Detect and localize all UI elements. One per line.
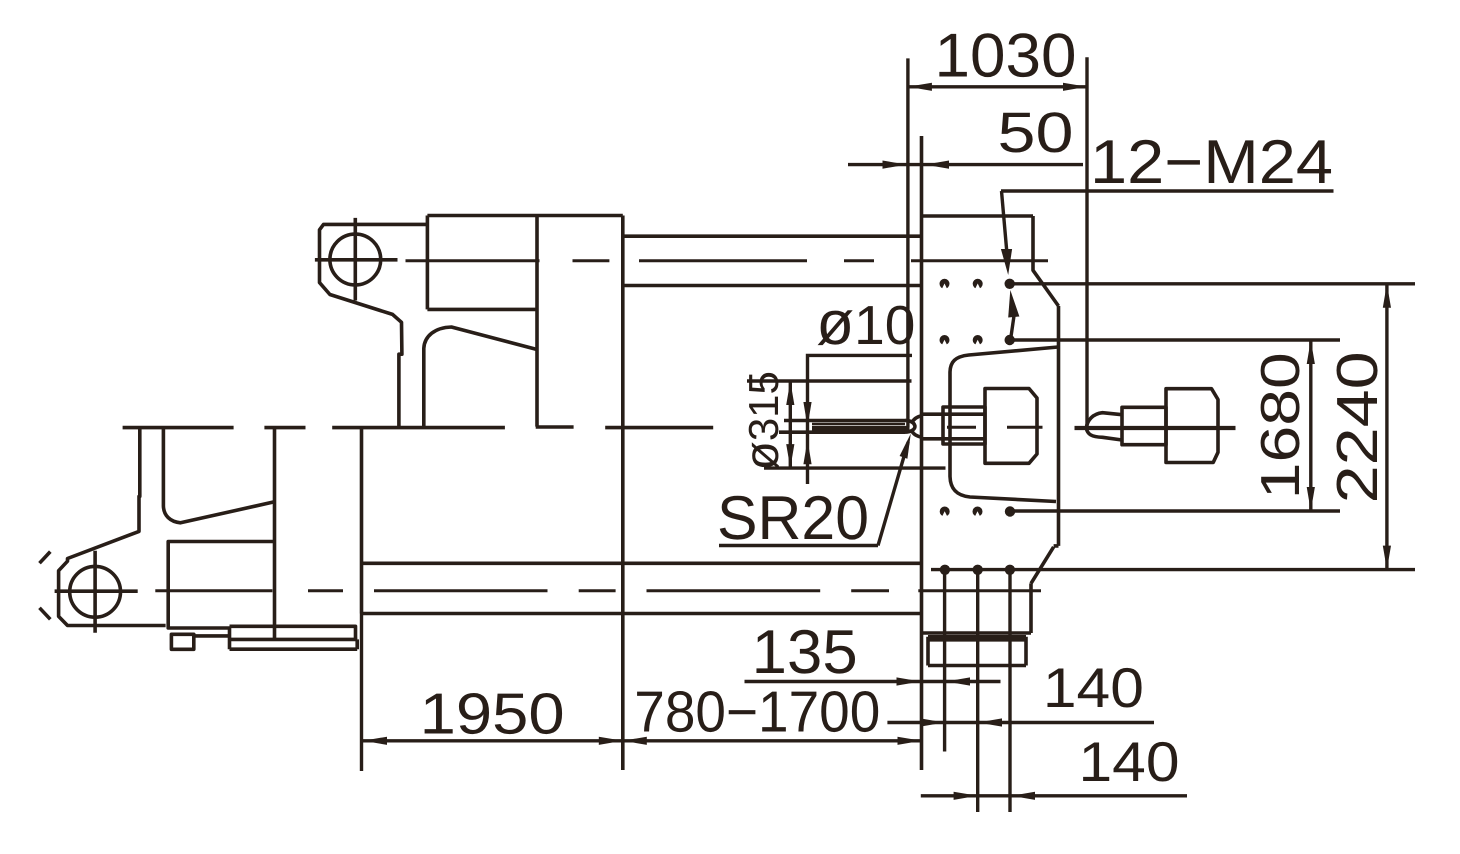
clamp cylinder top edge — [427, 214, 622, 218]
ext line 1030 right — [1085, 57, 1088, 427]
arrow 2240 down — [1383, 546, 1391, 570]
stationary platen top edge — [922, 214, 1034, 218]
center nozzle top line — [784, 419, 905, 423]
bolt dot row4 col1 — [940, 565, 950, 575]
dim line 1030 — [908, 85, 1087, 88]
bolt dot row4 col3 — [1005, 565, 1015, 575]
arrow 12-M24 up — [1008, 290, 1019, 318]
lower tie bar top line — [362, 561, 922, 565]
upper axis centerline dashes — [406, 259, 1049, 262]
ext line 1030 left — [906, 58, 909, 427]
lower cylinder box — [168, 542, 274, 629]
svg-text:140: 140 — [1043, 656, 1144, 719]
upper bracket outline — [320, 224, 428, 427]
lower crosshair horizontal — [55, 589, 138, 593]
stationary platen bottom edge — [922, 631, 1032, 635]
arrow dia10 up — [803, 440, 811, 464]
leader SR20 underline — [719, 544, 878, 547]
dim line dia315 — [789, 381, 792, 468]
svg-text:140: 140 — [1079, 730, 1180, 793]
dim line 1680 — [1309, 340, 1312, 511]
centerlines — [155, 261, 1048, 591]
dim line 50 — [848, 163, 1083, 166]
svg-text:ø10: ø10 — [816, 289, 915, 358]
ext line 2240 bottom — [931, 568, 1415, 571]
bolt dot bottom1 — [1005, 506, 1015, 516]
arrow dia10 down — [803, 402, 811, 427]
ext line 1680 top — [1013, 338, 1340, 341]
lower bracket leg and rib — [163, 428, 274, 523]
upper crosshair vertical — [353, 218, 357, 301]
svg-text:ø315: ø315 — [736, 371, 789, 470]
arrow 135 left — [897, 677, 921, 685]
arrow 50 right — [925, 161, 949, 169]
ext line dia315 bottom — [764, 466, 946, 469]
injection axis thick centerline — [1075, 426, 1236, 430]
lower small foot — [171, 634, 193, 649]
lower big foot plate — [230, 628, 358, 649]
hole r3c2 — [973, 507, 983, 517]
sprue channel dark band — [812, 426, 910, 432]
tapped holes — [940, 279, 983, 517]
ext line bolt col2 — [976, 574, 979, 812]
stationary platen mold face — [920, 136, 924, 770]
arrow 140bottom right — [1011, 792, 1035, 800]
arrow 12-M24 down — [1001, 249, 1012, 275]
nozzle retainer block — [985, 389, 1037, 464]
arrowheads and dots — [363, 83, 1391, 800]
lower tie bar bottom line — [362, 612, 922, 616]
stationary platen right edge — [1031, 306, 1059, 633]
hole r3c1 — [940, 507, 950, 517]
nozzle seat rect — [943, 407, 985, 444]
ext line dia315 top — [747, 379, 912, 382]
arrow 1030 right — [1063, 83, 1087, 91]
svg-text:135: 135 — [752, 618, 858, 687]
bolt dot row4 col2 — [973, 565, 983, 575]
dimension and extension lines — [362, 57, 1416, 812]
arrow 140bottom left — [954, 792, 978, 800]
arrow SR20 — [900, 434, 911, 459]
svg-text:1030: 1030 — [935, 22, 1077, 91]
moving platen right edge — [621, 216, 625, 771]
leader 12-M24 underline — [1001, 189, 1334, 192]
hole r1c1 — [940, 279, 950, 289]
arrow 1680 up — [1307, 340, 1315, 364]
right nozzle small body — [1122, 407, 1166, 444]
lower bracket outline — [59, 428, 166, 626]
seat bore top lip — [922, 412, 986, 416]
arrow 135 right — [946, 677, 970, 685]
dim line 2240 — [1385, 284, 1388, 570]
svg-text:12−M24: 12−M24 — [1090, 128, 1333, 197]
arrow dia315 up — [786, 381, 794, 405]
bolt dot top2 — [1005, 335, 1015, 345]
arrow 1950 left — [363, 737, 387, 745]
ext line 1680 bottom — [1013, 509, 1340, 512]
dim line 140 bottom — [921, 794, 1187, 797]
ext line 1950 left — [360, 614, 363, 772]
arrow 2240 up — [1383, 284, 1391, 308]
ext line bolt col3 — [1008, 574, 1011, 812]
arrow 140top right — [978, 718, 1002, 726]
rod break mark lower — [40, 608, 51, 620]
lower pin circle — [70, 566, 121, 617]
arrow 140top left — [920, 718, 944, 726]
machine base line segments — [123, 425, 714, 429]
clamp cylinder bottom edge — [427, 308, 537, 312]
svg-text:780−1700: 780−1700 — [634, 680, 880, 745]
dimension texts — [420, 22, 1390, 794]
dim line 140 top — [887, 721, 1154, 724]
upper tie bar top line — [623, 234, 922, 238]
upper pin circle — [330, 234, 381, 285]
svg-text:1950: 1950 — [420, 682, 565, 747]
arrow 780-1700 right — [898, 737, 922, 745]
leader 12-M24 segment 1 — [1002, 191, 1008, 262]
arrow 780-1700 left — [623, 737, 647, 745]
seat bore bottom lip — [922, 437, 986, 441]
arrow 1950 right — [599, 737, 623, 745]
lower axis centerline dashes — [155, 589, 1041, 592]
right nozzle big body — [1166, 389, 1218, 463]
center nozzle tip — [905, 420, 915, 432]
upper crosshair horizontal — [315, 258, 398, 262]
lower big foot top — [230, 626, 356, 639]
center nozzle inner line — [812, 423, 905, 426]
leader SR20 line — [878, 442, 908, 546]
seat arc lower — [912, 431, 923, 438]
ext line bolt col1 — [943, 574, 946, 752]
arrow 1680 down — [1307, 487, 1315, 511]
svg-text:50: 50 — [998, 101, 1074, 165]
locating boss outline — [950, 347, 1058, 502]
moving platen left edge — [535, 216, 539, 427]
lower crosshair vertical — [93, 551, 97, 633]
lower tie bar start vertical — [360, 428, 364, 614]
leader 12-M24 segment 2 — [1011, 317, 1014, 339]
arrow 1030 left — [908, 83, 932, 91]
upper tie bar bottom line — [623, 284, 922, 288]
svg-text:1680: 1680 — [1249, 352, 1311, 499]
dim line 1950 and 780-1700 — [363, 739, 922, 742]
arrow dia315 down — [786, 444, 794, 468]
upper bracket leg and rib — [424, 327, 537, 428]
lower foot link line — [194, 634, 230, 638]
center nozzle bottom line — [779, 430, 905, 434]
clamp cylinder left edge — [426, 216, 430, 310]
bolt dot top1 — [1005, 279, 1015, 289]
stationary platen upper right edge — [1033, 216, 1059, 306]
ext line dia10 — [808, 355, 913, 484]
arrow 50 left — [883, 161, 907, 169]
machine outlines — [40, 136, 1219, 770]
svg-text:SR20: SR20 — [717, 484, 869, 553]
hole r2c1 — [940, 335, 950, 345]
dim line 135 — [745, 680, 1001, 683]
right nozzle bullet tip — [1086, 413, 1122, 440]
stationary platen foot — [928, 637, 1026, 666]
svg-text:2240: 2240 — [1325, 351, 1390, 503]
seat arc upper — [912, 416, 923, 424]
hole r2c2 — [973, 335, 983, 345]
lower box right vertical — [273, 428, 277, 639]
rod break mark upper — [40, 552, 51, 564]
ext line 2240 top — [1014, 282, 1416, 285]
hole r1c2 — [973, 279, 983, 289]
injection axis centerline dashes — [947, 426, 1043, 429]
